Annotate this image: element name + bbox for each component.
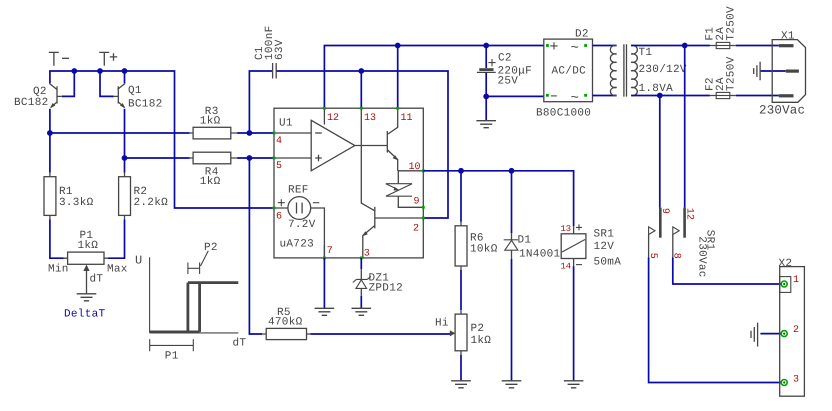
wire coil to ground <box>573 266 575 381</box>
svg-text:11: 11 <box>401 113 413 124</box>
wire C2 bottom / D2 minus row <box>486 72 544 120</box>
svg-text:uA723: uA723 <box>280 239 315 251</box>
wire X1 earth pin <box>760 70 786 72</box>
connector X2 <box>779 258 805 396</box>
capacitor C2 <box>477 53 532 88</box>
wire F2 to X1 <box>736 95 779 97</box>
svg-text:230Vac: 230Vac <box>695 236 707 277</box>
svg-text:AC/DC: AC/DC <box>552 66 587 78</box>
svg-text:T1: T1 <box>639 47 653 59</box>
svg-text:1N4001: 1N4001 <box>519 248 561 260</box>
wire Q1 emitter to R2 <box>124 109 126 173</box>
svg-text:13: 13 <box>561 224 572 234</box>
wire V+ top rail <box>324 46 543 109</box>
resistor R3 <box>190 106 238 139</box>
svg-text:63V: 63V <box>274 39 286 60</box>
U1 current-limit transistor (pins 2/3) <box>362 207 423 258</box>
svg-text:Q1: Q1 <box>128 85 142 97</box>
junction primary bottom / contact 9 <box>657 93 663 99</box>
wire pin13 drop <box>360 71 362 108</box>
svg-text:P2: P2 <box>471 323 485 335</box>
potentiometer P1 <box>48 230 128 294</box>
U1 pin13 / output tee / CL transistor collector <box>361 108 375 211</box>
wire C1 right to pin13/pin2 <box>277 71 448 218</box>
svg-text:1kΩ: 1kΩ <box>200 115 221 127</box>
label SR1 230Vac (contacts) <box>695 230 715 278</box>
svg-text:Max: Max <box>107 264 128 276</box>
svg-text:1kΩ: 1kΩ <box>471 335 492 347</box>
fuse F1 <box>705 6 738 49</box>
terminal T+ <box>99 52 117 65</box>
net label Hi <box>435 318 449 330</box>
relay contact SR1-B (12/8) <box>670 208 694 259</box>
junction Q2 emitter/R3 <box>47 130 53 136</box>
transistor Q1 <box>114 83 163 110</box>
wire D2 to T1 secondary <box>593 46 617 96</box>
wire contact 5 to X2 pin3 <box>649 258 781 383</box>
svg-text:6: 6 <box>276 211 282 222</box>
svg-text:25V: 25V <box>498 76 519 88</box>
wire P2 to ground <box>460 355 462 381</box>
resistor R5 <box>262 307 310 340</box>
relay coil SR1 <box>561 224 622 272</box>
U1 pin 7 stub <box>323 245 325 258</box>
svg-text:12V: 12V <box>594 241 615 253</box>
ground (relay coil) <box>564 381 584 388</box>
wire T- / T+ rail to U1 pin 6 <box>50 71 273 208</box>
wire pin3 to DZ1 <box>360 258 362 269</box>
svg-text:P2: P2 <box>204 242 218 254</box>
svg-text:dT: dT <box>90 274 104 286</box>
U1 pass transistor (pins 11/10) <box>387 108 423 171</box>
terminal T- <box>49 52 69 65</box>
wire R4 row <box>125 157 190 159</box>
svg-text:230Vac: 230Vac <box>759 104 805 118</box>
svg-text:12: 12 <box>327 113 339 124</box>
resistor R6 <box>455 222 498 270</box>
pin number 10 <box>409 162 421 173</box>
svg-text:U1: U1 <box>279 118 293 130</box>
ground earth (X1) <box>754 62 760 81</box>
svg-text:Q2: Q2 <box>33 86 47 98</box>
IC U1 box <box>274 108 423 258</box>
svg-text:U: U <box>135 254 143 268</box>
ground (C2) <box>476 121 496 128</box>
wire D1 top <box>511 171 513 233</box>
transistor Q2 <box>14 83 62 109</box>
wire Q2 base drop <box>62 71 75 96</box>
svg-text:14: 14 <box>561 262 572 272</box>
wire DZ1 to ground <box>360 296 362 309</box>
svg-text:9: 9 <box>659 208 670 214</box>
zener DZ1 <box>353 269 403 296</box>
pin number 6 <box>276 211 282 222</box>
svg-text:1kΩ: 1kΩ <box>78 240 99 252</box>
junction A (Q2 base) <box>71 68 77 74</box>
junction node pin5 <box>247 155 253 161</box>
resistor R1 <box>44 173 94 220</box>
svg-text:13: 13 <box>364 113 376 124</box>
svg-text:7: 7 <box>327 246 333 257</box>
svg-text:1kΩ: 1kΩ <box>200 176 221 188</box>
svg-text:230/12V: 230/12V <box>639 64 687 76</box>
svg-text:3: 3 <box>364 248 370 259</box>
ground (DZ1) <box>352 308 372 315</box>
junction primary top / contact 12 <box>682 43 688 49</box>
wire contact 9 drop <box>659 96 661 208</box>
bridge rectifier D2 <box>536 29 593 120</box>
svg-text:X1: X1 <box>781 30 795 42</box>
svg-text:50mA: 50mA <box>594 257 622 269</box>
svg-text:3: 3 <box>793 375 799 386</box>
svg-text:D2: D2 <box>575 29 589 41</box>
wire pin7 to ground <box>323 258 325 308</box>
wire pin 10 row <box>423 171 573 226</box>
wire contact 8 to X2 pin1 <box>673 258 781 285</box>
resistor R4 <box>190 152 238 188</box>
wire Q2 emitter to R1 <box>49 109 51 173</box>
svg-text:Hi: Hi <box>435 318 449 330</box>
pin number 5 <box>276 161 282 172</box>
svg-text:~: ~ <box>571 41 580 57</box>
svg-text:1.8VA: 1.8VA <box>639 83 674 95</box>
svg-text:D1: D1 <box>518 234 532 246</box>
diode D1 <box>504 233 561 260</box>
potentiometer P2 <box>450 310 492 355</box>
wire R1 to P1 <box>50 220 64 259</box>
wire F1 to X1 <box>736 45 779 47</box>
ground (P2) <box>451 381 471 388</box>
wire X2 pin2 earth <box>760 333 781 335</box>
junction rail/pin11 <box>395 43 401 49</box>
svg-text:1: 1 <box>793 275 799 286</box>
svg-text:BC182: BC182 <box>128 98 163 110</box>
svg-text:9: 9 <box>414 197 420 208</box>
resistor R2 <box>119 173 169 220</box>
svg-text:4: 4 <box>276 136 282 147</box>
svg-text:T250V: T250V <box>725 56 737 91</box>
pin number 3 <box>364 248 370 259</box>
pin number 4 <box>276 136 282 147</box>
svg-text:C2: C2 <box>498 53 512 65</box>
junction B (Q1 base) <box>97 68 103 74</box>
svg-text:12: 12 <box>683 208 694 220</box>
svg-text:B80C1000: B80C1000 <box>536 108 591 120</box>
pin number 13 <box>364 113 376 124</box>
svg-text:dT: dT <box>233 338 247 350</box>
ground earth (X2) <box>751 323 758 347</box>
svg-text:10: 10 <box>409 162 421 173</box>
wire R6 to P2 <box>460 270 462 310</box>
capacitor C1 <box>254 25 286 78</box>
wire R6 top <box>460 171 462 222</box>
svg-text:BC182: BC182 <box>14 97 49 109</box>
wire R4 out to pin 5 <box>237 157 274 159</box>
ground (pin 7) <box>315 308 335 315</box>
U1 pin12 stub <box>323 108 325 124</box>
svg-text:5: 5 <box>276 161 282 172</box>
svg-text:2: 2 <box>413 224 419 235</box>
green pin ends U1 <box>273 107 425 259</box>
wire Hi row R5 to P2 wiper <box>311 333 451 335</box>
REF source U1 <box>274 184 324 258</box>
junction pin10/D1 <box>509 168 515 174</box>
junction C (Q1 collector) <box>122 68 128 74</box>
svg-text:7.2V: 7.2V <box>288 219 316 231</box>
junction C2/D2- <box>483 94 489 100</box>
wire T1 primary top to F1 <box>631 45 710 47</box>
U1 internal zener (pins 10/9) <box>386 171 424 208</box>
fuse F2 <box>705 56 738 98</box>
ground (D1) <box>502 381 522 388</box>
svg-text:ZPD12: ZPD12 <box>369 283 404 295</box>
wire R3 out to pin 4 <box>237 132 274 134</box>
wire Q1 collector drop <box>124 71 126 83</box>
wire T1 primary bottom to F2 <box>631 95 710 97</box>
svg-text:REF: REF <box>288 184 309 196</box>
junction C1/pin13 <box>358 68 364 74</box>
wire pin11 drop <box>397 46 399 109</box>
junction rail/C2 <box>483 43 489 49</box>
junction Q1 emitter/R4 <box>122 155 128 161</box>
svg-text:2: 2 <box>793 325 799 336</box>
svg-text:10kΩ: 10kΩ <box>470 243 498 255</box>
svg-text:2.2kΩ: 2.2kΩ <box>134 197 169 209</box>
wire node5 down to R5 <box>249 158 262 334</box>
svg-text:T250V: T250V <box>725 6 737 41</box>
wire contact 12 drop <box>684 46 686 208</box>
hysteresis graph <box>135 242 246 363</box>
op-amp U1 <box>274 120 387 171</box>
pin number 11 <box>401 113 413 124</box>
wire R2 to P1 <box>108 220 124 259</box>
svg-text:Min: Min <box>48 264 69 276</box>
svg-text:P1: P1 <box>165 350 179 362</box>
wire Q1 base drop <box>100 71 114 96</box>
wire D1 to ground <box>511 259 513 381</box>
wire R3 row <box>50 132 190 134</box>
svg-text:SR1: SR1 <box>594 228 615 240</box>
junction pin10/R6 <box>458 168 464 174</box>
wire C2 top <box>485 46 487 69</box>
svg-text:X2: X2 <box>779 258 793 270</box>
svg-text:470kΩ: 470kΩ <box>268 317 303 329</box>
junction node pin4 <box>247 130 253 136</box>
svg-text:DeltaT: DeltaT <box>64 309 106 321</box>
svg-text:3.3kΩ: 3.3kΩ <box>59 197 94 209</box>
pin number 2 <box>413 224 419 235</box>
pin number 9 <box>414 197 420 208</box>
pin number 7 <box>327 246 333 257</box>
relay contact SR1-A (9/5) <box>647 208 670 259</box>
svg-text:~: ~ <box>571 91 580 107</box>
transformer T1 <box>610 44 687 96</box>
pin number 12 <box>327 113 339 124</box>
ground DeltaT (below P1) <box>64 294 106 321</box>
connector X1 <box>759 30 806 117</box>
wire node4 up to C1 <box>249 71 272 133</box>
